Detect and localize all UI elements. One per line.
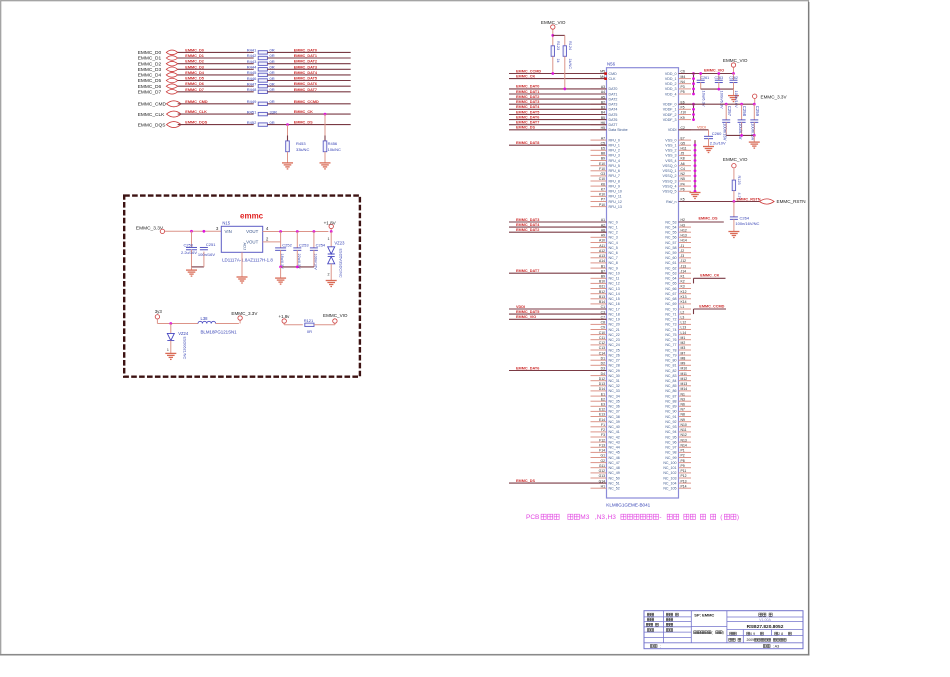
svg-text:L38: L38 (201, 316, 209, 321)
svg-text:B8: B8 (601, 152, 605, 156)
svg-text:N15: N15 (222, 221, 230, 226)
svg-text:C250: C250 (184, 243, 194, 248)
svg-text:NC_39: NC_39 (609, 420, 620, 424)
svg-text:1: 1 (328, 237, 330, 241)
svg-text:EMMC_D4: EMMC_D4 (138, 73, 162, 79)
svg-text:R447: R447 (247, 81, 257, 86)
svg-text:EMMC_DAT0: EMMC_DAT0 (516, 85, 539, 89)
svg-text:DAT4: DAT4 (609, 108, 618, 112)
svg-text:R444: R444 (247, 65, 257, 70)
svg-text:K12: K12 (681, 290, 687, 294)
svg-text:NC_33: NC_33 (609, 389, 620, 393)
svg-text:NC_68: NC_68 (665, 297, 676, 301)
svg-text:RFU_3: RFU_3 (609, 154, 620, 158)
svg-text:VDDF_0: VDDF_0 (663, 103, 677, 107)
svg-text:VSS_0: VSS_0 (665, 138, 676, 142)
svg-text:D4: D4 (601, 372, 605, 376)
svg-text:0R: 0R (307, 329, 312, 334)
svg-text:VZ23: VZ23 (334, 240, 345, 245)
svg-text:NC_10: NC_10 (609, 272, 620, 276)
svg-text:C261: C261 (701, 76, 710, 80)
svg-text:NC_91: NC_91 (665, 415, 676, 419)
svg-text:R453: R453 (296, 141, 306, 146)
svg-text:EMMC_D7: EMMC_D7 (138, 90, 162, 96)
svg-text:0R: 0R (270, 99, 275, 104)
svg-text:EMMC_D1: EMMC_D1 (138, 56, 162, 62)
svg-text:RFU_9: RFU_9 (609, 184, 620, 188)
svg-text:R448: R448 (247, 87, 257, 92)
svg-text:NC_92: NC_92 (665, 420, 676, 424)
svg-text:NC_94: NC_94 (665, 430, 676, 434)
svg-text:N13: N13 (681, 438, 687, 442)
svg-text:K6: K6 (601, 182, 605, 186)
svg-text:NC_15: NC_15 (609, 297, 620, 301)
svg-text:EMMC_CK: EMMC_CK (516, 74, 535, 78)
svg-text:A6: A6 (681, 162, 685, 166)
svg-text:EMMC_D4: EMMC_D4 (185, 71, 204, 75)
svg-text:A12: A12 (599, 249, 605, 253)
svg-text:C259: C259 (755, 106, 760, 117)
svg-text:NC_57: NC_57 (665, 241, 676, 245)
svg-text:NC_42: NC_42 (609, 435, 620, 439)
svg-text:NC_24: NC_24 (609, 343, 620, 347)
svg-text:C11: C11 (599, 336, 605, 340)
svg-text:C10: C10 (599, 331, 605, 335)
svg-text:EMMC_DAT5: EMMC_DAT5 (516, 110, 539, 114)
svg-text:P8: P8 (681, 459, 685, 463)
svg-text:NC_100: NC_100 (663, 461, 676, 465)
svg-text:DAT5: DAT5 (609, 113, 618, 117)
svg-text:F3: F3 (601, 433, 605, 437)
svg-text:EMMC_RSTN: EMMC_RSTN (737, 197, 761, 201)
svg-text:EMMC_D5: EMMC_D5 (185, 77, 204, 81)
svg-text:NC_26: NC_26 (609, 353, 620, 357)
svg-text:J2: J2 (681, 249, 685, 253)
svg-text:RFU_2: RFU_2 (609, 149, 620, 153)
svg-text:EMMC_CMD: EMMC_CMD (138, 102, 167, 108)
svg-text:R445: R445 (247, 70, 257, 75)
svg-text:2.2u/10V: 2.2u/10V (710, 140, 726, 145)
svg-text:C260: C260 (712, 131, 722, 136)
svg-text:BLM18PG121SN1: BLM18PG121SN1 (201, 330, 238, 335)
svg-text:P3: P3 (681, 85, 685, 89)
svg-text:H3: H3 (681, 223, 685, 227)
svg-text:NC_35: NC_35 (609, 400, 620, 404)
svg-text:NC_65: NC_65 (665, 282, 676, 286)
svg-text:F1: F1 (601, 423, 605, 427)
svg-text:0R: 0R (270, 87, 275, 92)
svg-text:NC_83: NC_83 (665, 374, 676, 378)
svg-text:33k/NC: 33k/NC (296, 147, 309, 152)
svg-text:NC_74: NC_74 (665, 328, 676, 332)
svg-text:NC_23: NC_23 (609, 338, 620, 342)
svg-text:NC_16: NC_16 (609, 302, 620, 306)
svg-text:2009: 2009 (747, 638, 755, 642)
svg-text:D2: D2 (601, 362, 605, 366)
svg-text:J13: J13 (681, 264, 687, 268)
svg-text:M13: M13 (681, 382, 688, 386)
svg-text:G2: G2 (600, 459, 605, 463)
svg-text:NC_48: NC_48 (609, 466, 620, 470)
svg-text:VDD_2: VDD_2 (665, 82, 677, 86)
svg-text:3y3: 3y3 (155, 309, 163, 314)
svg-text:EMMC_DAT3: EMMC_DAT3 (516, 218, 539, 222)
svg-text:N7: N7 (681, 408, 685, 412)
svg-text:NC_103: NC_103 (663, 476, 676, 480)
svg-text:N11: N11 (681, 428, 687, 432)
svg-text:M11: M11 (681, 372, 687, 376)
svg-text:P2: P2 (681, 454, 685, 458)
svg-text:B1: B1 (601, 264, 605, 268)
svg-text:H1: H1 (601, 484, 605, 488)
svg-text:2.2u/16V: 2.2u/16V (181, 250, 197, 255)
svg-text:E3: E3 (601, 403, 605, 407)
svg-text:RFU_4: RFU_4 (609, 159, 620, 163)
svg-text:VDD_4: VDD_4 (665, 92, 677, 96)
svg-text:EMMC_VIO: EMMC_VIO (723, 58, 748, 63)
svg-text:NC_66: NC_66 (665, 287, 676, 291)
svg-text:NC_7: NC_7 (609, 256, 618, 260)
svg-text:2: 2 (328, 273, 330, 277)
svg-text:M14: M14 (681, 387, 688, 391)
svg-text:NC_84: NC_84 (665, 379, 676, 383)
svg-text:NC_51: NC_51 (609, 481, 620, 485)
svg-text:EMMC_DAT5: EMMC_DAT5 (516, 310, 539, 314)
svg-text:EMMC_3.3V: EMMC_3.3V (761, 95, 788, 100)
svg-text:F10: F10 (599, 167, 605, 171)
svg-text:C252: C252 (282, 243, 292, 248)
svg-text:R451: R451 (247, 109, 257, 114)
svg-text:EMMC_D7: EMMC_D7 (185, 88, 204, 92)
svg-text:DAT3: DAT3 (609, 103, 618, 107)
svg-text:EMMC_VIO: EMMC_VIO (516, 315, 536, 319)
svg-text:EMMC_D6: EMMC_D6 (138, 84, 162, 90)
svg-text:VDDF_3: VDDF_3 (663, 118, 677, 122)
svg-text:NC_89: NC_89 (665, 405, 676, 409)
svg-text:NC_70: NC_70 (665, 307, 676, 311)
svg-text:NC_47: NC_47 (609, 461, 620, 465)
svg-text:C10: C10 (599, 177, 605, 181)
svg-text:M1: M1 (681, 336, 686, 340)
svg-text:100n/16V: 100n/16V (734, 91, 739, 108)
svg-text:RFU_1: RFU_1 (609, 144, 620, 148)
svg-text:NC_44: NC_44 (609, 446, 620, 450)
svg-text:C12: C12 (599, 341, 605, 345)
svg-text:P11: P11 (681, 469, 687, 473)
svg-text:N10: N10 (681, 423, 687, 427)
svg-text:NC_87: NC_87 (665, 394, 676, 398)
svg-text:NC_60: NC_60 (665, 256, 676, 260)
svg-text:2 8: 2 8 (778, 632, 783, 636)
svg-text:NC_79: NC_79 (665, 353, 676, 357)
svg-text:NC_3: NC_3 (609, 236, 618, 240)
svg-text:EMMC_DAT6: EMMC_DAT6 (294, 82, 317, 86)
svg-text:NC_71: NC_71 (665, 312, 676, 316)
svg-text:M10: M10 (681, 367, 688, 371)
svg-text:RFU_11: RFU_11 (609, 195, 622, 199)
svg-text:F12: F12 (599, 438, 605, 442)
svg-text:NC_31: NC_31 (609, 379, 620, 383)
svg-text:PCB: PCB (526, 514, 539, 521)
svg-text::: : (660, 644, 661, 648)
svg-text:33R: 33R (270, 109, 277, 114)
svg-text:N5: N5 (681, 177, 685, 181)
svg-text:EMMC_DAT2: EMMC_DAT2 (516, 228, 539, 232)
svg-text:NC_32: NC_32 (609, 384, 620, 388)
svg-text:EMMC_DAT3: EMMC_DAT3 (294, 65, 317, 69)
svg-text:EMMC_CK: EMMC_CK (700, 274, 719, 278)
svg-text:NC_14: NC_14 (609, 292, 620, 296)
svg-text:M8: M8 (681, 356, 686, 360)
svg-text:EMMC_RSTN: EMMC_RSTN (777, 199, 806, 204)
svg-text:NC_54: NC_54 (665, 225, 676, 229)
svg-text:K3: K3 (681, 285, 685, 289)
svg-text:NC_80: NC_80 (665, 359, 676, 363)
svg-text:M3: M3 (681, 346, 686, 350)
svg-text:NC_99: NC_99 (665, 456, 676, 460)
svg-text:P13: P13 (681, 479, 687, 483)
svg-text:L12: L12 (681, 321, 687, 325)
svg-text:E5: E5 (601, 147, 605, 151)
svg-text:NC_17: NC_17 (609, 307, 620, 311)
svg-text:NC_90: NC_90 (665, 410, 676, 414)
svg-text:NC_50: NC_50 (609, 476, 620, 480)
svg-text:NC_19: NC_19 (609, 318, 620, 322)
svg-text:N6: N6 (681, 403, 685, 407)
svg-text:EMMC_VIO: EMMC_VIO (723, 157, 748, 162)
svg-text:EMMC_DS: EMMC_DS (516, 479, 535, 483)
svg-text:B9: B9 (601, 275, 605, 279)
svg-text:NC_8: NC_8 (609, 261, 618, 265)
svg-text:ESD5V3SDC/NC: ESD5V3SDC/NC (339, 249, 343, 278)
svg-text:R123: R123 (556, 41, 560, 50)
svg-text:K8: K8 (681, 157, 685, 161)
svg-text:EMMC_DAT1: EMMC_DAT1 (516, 90, 539, 94)
svg-text:N1: N1 (681, 392, 685, 396)
svg-text:J5: J5 (681, 152, 685, 156)
svg-text:+1.8V: +1.8V (324, 220, 337, 225)
svg-text:EMMC_DAT8: EMMC_DAT8 (516, 141, 539, 145)
svg-text:EMMC_VIO: EMMC_VIO (323, 313, 348, 318)
svg-text:R443: R443 (247, 59, 257, 64)
svg-text:0R: 0R (270, 53, 275, 58)
svg-text:0R: 0R (270, 81, 275, 86)
svg-text:R124: R124 (568, 41, 572, 50)
svg-text:EMMC_DAT6: EMMC_DAT6 (516, 366, 539, 370)
svg-text:NC_12: NC_12 (609, 282, 620, 286)
svg-text:): ) (723, 631, 724, 635)
svg-text:NC_46: NC_46 (609, 456, 620, 460)
svg-text:VSSQ_0: VSSQ_0 (663, 164, 677, 168)
svg-text:EMMC_D3: EMMC_D3 (185, 65, 204, 69)
svg-text:NC_73: NC_73 (665, 323, 676, 327)
svg-text:H13: H13 (681, 234, 687, 238)
svg-text:F14: F14 (599, 449, 605, 453)
svg-text:DAT2: DAT2 (609, 97, 618, 101)
svg-text:NC_37: NC_37 (609, 410, 620, 414)
svg-text:10u/6.3V: 10u/6.3V (738, 123, 743, 140)
svg-text:B9: B9 (601, 157, 605, 161)
svg-text:A14: A14 (599, 259, 605, 263)
svg-text:NC_82: NC_82 (665, 369, 676, 373)
svg-text:NC_102: NC_102 (663, 471, 676, 475)
svg-text:N3: N3 (681, 397, 685, 401)
svg-text:NC_13: NC_13 (609, 287, 620, 291)
svg-text:J12: J12 (681, 259, 687, 263)
svg-text:C257: C257 (727, 106, 732, 117)
svg-text:C264: C264 (740, 215, 750, 220)
svg-text:C254: C254 (316, 243, 326, 248)
svg-text:NC_43: NC_43 (609, 440, 620, 444)
svg-text:NC_77: NC_77 (665, 343, 676, 347)
svg-text:0R: 0R (270, 70, 275, 75)
svg-text:NC_56: NC_56 (665, 236, 676, 240)
svg-text:: A3: : A3 (773, 644, 780, 648)
svg-text:0 9: 0 9 (750, 632, 755, 636)
svg-text:NC_6: NC_6 (609, 251, 618, 255)
svg-text:EMMC_CLK: EMMC_CLK (138, 112, 165, 118)
svg-text:EMMC_CCMD: EMMC_CCMD (516, 69, 541, 73)
svg-text:NC_62: NC_62 (665, 266, 676, 270)
svg-text:NC_85: NC_85 (665, 384, 676, 388)
svg-text:EMMC_CMD: EMMC_CMD (185, 100, 208, 104)
svg-text:EMMC_DAT2: EMMC_DAT2 (516, 95, 539, 99)
svg-text:C9: C9 (601, 326, 605, 330)
svg-text:VDDI: VDDI (516, 305, 525, 309)
svg-text:V1.00A: V1.00A (759, 618, 771, 622)
svg-text:EMMC_DAT4: EMMC_DAT4 (294, 71, 318, 75)
svg-text:EMMC_DAT3: EMMC_DAT3 (516, 100, 539, 104)
svg-text:NC_2: NC_2 (609, 231, 618, 235)
svg-text:NC_1: NC_1 (609, 225, 618, 229)
svg-text:Data Strobe: Data Strobe (609, 128, 628, 132)
svg-text:K10: K10 (599, 193, 605, 197)
svg-text:P7: P7 (601, 198, 605, 202)
svg-text:EMMC_DQS: EMMC_DQS (185, 121, 207, 125)
svg-text:): ) (737, 514, 739, 521)
svg-text:VSSQ_5: VSSQ_5 (663, 190, 677, 194)
svg-text:VSSQ_4: VSSQ_4 (663, 184, 677, 188)
svg-text:E14: E14 (599, 418, 605, 422)
svg-text:P9: P9 (681, 464, 685, 468)
svg-text:N4: N4 (681, 80, 685, 84)
svg-text:KLM8G1GEME-B041: KLM8G1GEME-B041 (606, 502, 650, 507)
svg-text:N12: N12 (681, 433, 687, 437)
svg-text:NC_45: NC_45 (609, 451, 620, 455)
svg-text:M2: M2 (681, 341, 686, 345)
svg-text:D14: D14 (599, 387, 605, 391)
svg-text:SP: EMMC: SP: EMMC (694, 612, 714, 617)
svg-text:DAT6: DAT6 (609, 118, 618, 122)
svg-text:NC_76: NC_76 (665, 338, 676, 342)
svg-text:DAT0: DAT0 (609, 87, 618, 91)
svg-text:ESD0621/NC: ESD0621/NC (183, 337, 187, 360)
svg-text:P12: P12 (681, 474, 687, 478)
svg-text:C258: C258 (742, 106, 747, 117)
svg-text:R449: R449 (247, 99, 257, 104)
svg-text:E10: E10 (599, 162, 605, 166)
svg-text:EMMC_D6: EMMC_D6 (185, 82, 204, 86)
svg-text:A11: A11 (599, 244, 605, 248)
svg-text:EMMC_D2: EMMC_D2 (185, 60, 204, 64)
svg-text:0R: 0R (270, 120, 275, 125)
svg-text:C4: C4 (681, 167, 685, 171)
svg-text:VSSQ_1: VSSQ_1 (663, 169, 677, 173)
svg-text:RFU_10: RFU_10 (609, 190, 622, 194)
svg-text:100n/16V/NC: 100n/16V/NC (735, 221, 759, 226)
svg-text:N2: N2 (681, 172, 685, 176)
svg-text:E1: E1 (601, 392, 605, 396)
svg-text:100n/16V: 100n/16V (723, 123, 728, 141)
svg-text:NC_29: NC_29 (609, 369, 620, 373)
svg-text:C262: C262 (729, 76, 738, 80)
svg-text:10k/NC: 10k/NC (328, 147, 341, 152)
svg-text:NC_22: NC_22 (609, 333, 620, 337)
svg-text:NC_105: NC_105 (663, 487, 676, 491)
svg-text:NC_61: NC_61 (665, 261, 676, 265)
svg-text:NC_93: NC_93 (665, 425, 676, 429)
svg-text:NC_52: NC_52 (609, 487, 620, 491)
svg-text:G13: G13 (599, 474, 606, 478)
svg-text:EMMC_CK: EMMC_CK (294, 110, 313, 114)
svg-text:RFU_8: RFU_8 (609, 179, 620, 183)
svg-text:NC_96: NC_96 (665, 440, 676, 444)
svg-text:EMMC_DAT2: EMMC_DAT2 (294, 60, 317, 64)
svg-text:EMMC_DAT6: EMMC_DAT6 (516, 115, 539, 119)
svg-text:R121: R121 (304, 318, 314, 323)
svg-text:EMMC_DAT7: EMMC_DAT7 (516, 121, 539, 125)
svg-text:100n/6.3V: 100n/6.3V (719, 91, 724, 110)
svg-text:RFU_6: RFU_6 (609, 169, 620, 173)
svg-text:P1: P1 (681, 449, 685, 453)
svg-text:C253: C253 (299, 243, 309, 248)
svg-text:100n/16V: 100n/16V (314, 254, 318, 271)
svg-text:NC_78: NC_78 (665, 348, 676, 352)
svg-text:M4: M4 (681, 75, 686, 79)
svg-text:NC_40: NC_40 (609, 425, 620, 429)
svg-text:VDDF_1: VDDF_1 (663, 108, 677, 112)
svg-text:VDD_0: VDD_0 (665, 72, 677, 76)
svg-text:G5: G5 (681, 141, 686, 145)
svg-text:F2: F2 (601, 428, 605, 432)
svg-text:G1: G1 (600, 454, 605, 458)
svg-text:NC_63: NC_63 (665, 272, 676, 276)
svg-text:CLK: CLK (609, 77, 617, 81)
svg-text:R456: R456 (328, 141, 338, 146)
svg-text:L14: L14 (681, 331, 687, 335)
svg-text:NC_5: NC_5 (609, 246, 618, 250)
svg-text:EMMC_D2: EMMC_D2 (138, 61, 162, 67)
svg-text:A10: A10 (599, 239, 605, 243)
svg-text:R446: R446 (247, 76, 257, 81)
svg-text:B11: B11 (599, 285, 605, 289)
svg-text:NC_49: NC_49 (609, 471, 620, 475)
svg-text:NC_4: NC_4 (609, 241, 618, 245)
svg-text:K13: K13 (681, 295, 687, 299)
svg-text:0R: 0R (270, 59, 275, 64)
svg-text:100n/16V: 100n/16V (198, 252, 215, 257)
svg-text:NC_25: NC_25 (609, 348, 620, 352)
svg-text:EMMC_VIO: EMMC_VIO (541, 20, 566, 25)
svg-text:RFU_13: RFU_13 (609, 205, 622, 209)
svg-text:VSSQ_2: VSSQ_2 (663, 174, 677, 178)
svg-text:0R: 0R (270, 65, 275, 70)
svg-text:M3: M3 (580, 514, 589, 521)
svg-text:F5: F5 (681, 106, 685, 110)
svg-text:RSB27.820.8052: RSB27.820.8052 (747, 624, 784, 630)
svg-text:K7: K7 (601, 188, 605, 192)
svg-text:J14: J14 (681, 269, 687, 273)
